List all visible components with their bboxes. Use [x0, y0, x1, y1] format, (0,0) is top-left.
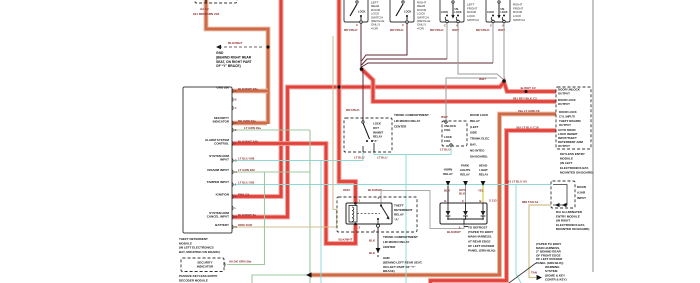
wire BLK/WHT 28a row A [232, 89, 268, 94]
theft deterrent module box [183, 87, 232, 233]
wire REY/BLK left rear switch [361, 23, 363, 119]
svg-text:REY/BLK: REY/BLK [344, 28, 358, 32]
wire LT BLU branch down middle [405, 155, 407, 283]
svg-text:SECURITYINDICATOR: SECURITYINDICATOR [197, 261, 214, 269]
svg-text:BLK: BLK [369, 251, 376, 255]
door lock relay dashed box [442, 121, 467, 146]
wire GRN to bottom module [252, 275, 309, 283]
svg-text:BATTERY: BATTERY [215, 223, 229, 227]
svg-text:F: F [235, 141, 237, 145]
svg-text:881 REY/BLK C3: 881 REY/BLK C3 [513, 97, 537, 101]
svg-text:HORNRELAY: HORNRELAY [443, 168, 453, 177]
wire LT GRN 29a [232, 129, 310, 131]
wire BRN/ORN 294 salmon from top connector [206, 0, 268, 124]
wire LT BLU 698 row to lockout relay [232, 152, 363, 161]
svg-text:SECURITYINDICATOR: SECURITYINDICATOR [213, 116, 230, 124]
wire ORN 1040 battery row [232, 36, 337, 227]
keyless entry module dashed box [556, 87, 591, 149]
wire PNK C8 ignition feed [232, 0, 281, 197]
svg-text:LOCK: LOCK [487, 11, 494, 14]
to defrost arrow [464, 226, 468, 228]
wire REY/BLK left front switch horizontal [362, 59, 448, 65]
svg-text:(TAPED TO BODYMAIN HARNESS,2″: (TAPED TO BODYMAIN HARNESS,2″ BEHIND REA… [536, 242, 563, 265]
wire BLK/WHT 246 alarm system control to relay pin 2 [232, 144, 356, 244]
svg-text:IGNITION: IGNITION [216, 193, 229, 197]
svg-text:BLK/WHT: BLK/WHT [447, 230, 461, 234]
left front door lock switch [440, 0, 464, 22]
svg-text:TAMPER INPUT: TAMPER INPUT [207, 180, 229, 184]
connector C2 dashed box (top) [195, 0, 237, 3]
wire LT GRN vertical to splice [309, 130, 311, 283]
svg-text:B: B [235, 97, 237, 101]
svg-text:LOCK: LOCK [358, 10, 365, 14]
svg-text:LT GRN 29a: LT GRN 29a [244, 126, 261, 130]
svg-text:292 LT BLU C18: 292 LT BLU C18 [516, 126, 539, 130]
svg-text:LOCK: LOCK [441, 11, 448, 14]
svg-text:BLK/WHT: BLK/WHT [339, 238, 353, 242]
svg-text:A: A [456, 24, 458, 28]
svg-text:BLK: BLK [369, 239, 376, 243]
theft deterrent relay box [346, 203, 392, 224]
wire DK GRN 29a security indicator link [227, 172, 265, 265]
diodes [447, 203, 449, 211]
svg-text:ORN 1040: ORN 1040 [238, 223, 253, 227]
lock out inhibit relay dashed box [344, 118, 392, 152]
svg-text:YEL: YEL [478, 189, 484, 193]
wire WHT right front switch [503, 23, 505, 80]
svg-text:ORN: ORN [343, 188, 350, 192]
svg-text:LT BLU 698: LT BLU 698 [238, 156, 255, 160]
svg-text:S 313: S 313 [489, 199, 497, 203]
svg-text:BLK: BLK [444, 189, 451, 193]
wire LT GRN 262 row [232, 171, 310, 173]
svg-text:SYSTEM ARMCANCEL INPUT: SYSTEM ARMCANCEL INPUT [207, 211, 230, 219]
svg-text:WHT: WHT [498, 28, 505, 32]
ground behind left rear seat [376, 248, 381, 257]
relay switch [380, 204, 382, 206]
svg-text:C: C [444, 24, 446, 28]
svg-text:REY/BLK: REY/BLK [346, 108, 360, 112]
svg-text:LT BLU: LT BLU [440, 148, 450, 152]
illuminated entry module dashed box [551, 181, 575, 208]
svg-text:C: C [490, 24, 492, 28]
svg-text:888 TAN A2: 888 TAN A2 [522, 200, 539, 204]
svg-text:C: C [462, 199, 464, 203]
svg-text:LT GRN 262: LT GRN 262 [238, 168, 255, 172]
svg-text:WHT: WHT [452, 28, 459, 32]
svg-text:C: C [356, 23, 358, 27]
wire LT BLU 292 row to door ajar input [232, 184, 551, 186]
wire REY/BLK to door lock output [362, 69, 557, 102]
wire DK GRN 29a row D [232, 121, 267, 126]
theft deterrent module pins and labels [232, 89, 233, 93]
svg-text:DK GRN 29a: DK GRN 29a [238, 119, 256, 123]
wire YEL from headlight relay [482, 186, 484, 203]
wire BLK from horn relay [447, 186, 449, 203]
wire red feed to theft deterrent relay pin 1 [339, 0, 356, 203]
svg-text:GRD 280: GRD 280 [216, 86, 229, 90]
wire REY/BLK left front switch [446, 23, 448, 59]
svg-text:TAN: TAN [531, 271, 537, 275]
svg-text:29a LT GRN C8: 29a LT GRN C8 [518, 109, 540, 113]
wire LT BLU branch down right [516, 185, 521, 283]
right front door lock switch [486, 0, 510, 22]
door ajar input internal wiring [553, 185, 567, 206]
svg-text:BLK/WHT: BLK/WHT [228, 41, 242, 45]
svg-text:WHT: WHT [479, 77, 486, 81]
svg-text:811 BRN/ORN 294: 811 BRN/ORN 294 [193, 12, 220, 16]
wire BLK/WHT 8a to door unlock output [232, 82, 556, 217]
warning system arrow [537, 275, 543, 280]
svg-text:PARKLIGHTSRELAY: PARKLIGHTSRELAY [460, 164, 471, 177]
svg-text:HEAD-LIGHTRELAY: HEAD-LIGHTRELAY [479, 164, 489, 177]
wire TAN 888 to warning system [529, 205, 551, 278]
wire BLK relay pin 5 to ground [377, 228, 379, 254]
svg-text:4a WHT C2: 4a WHT C2 [520, 86, 536, 90]
wire LT BLU lockout relay to door lock relay [374, 146, 451, 155]
right rear door lock switch [390, 0, 414, 22]
left rear door lock switch [344, 0, 368, 22]
svg-text:L: L [235, 206, 237, 210]
wire right boundary [592, 0, 594, 272]
wire REY/BLK right front switch [492, 23, 494, 63]
svg-text:C: C [402, 23, 404, 27]
wire LT BLU branch down left [320, 161, 322, 283]
relay coil [349, 206, 357, 223]
splice S403 arrow [306, 272, 312, 277]
svg-text:LT BLU: LT BLU [377, 156, 387, 160]
svg-text:A: A [502, 24, 504, 28]
svg-text:E: E [235, 128, 237, 132]
svg-text:REY/BLK: REY/BLK [390, 28, 404, 32]
svg-text:PNK C8: PNK C8 [238, 192, 249, 196]
svg-text:BLK/WHT: BLK/WHT [368, 188, 382, 192]
svg-text:DISARM INPUT: DISARM INPUT [207, 168, 229, 172]
svg-text:A2 C2: A2 C2 [200, 7, 209, 11]
pointer line [509, 263, 536, 283]
wire LT GRN C8 door lock cyl input [311, 114, 556, 275]
svg-text:BLK/WHT 28a: BLK/WHT 28a [238, 87, 258, 91]
svg-text:H: H [235, 170, 237, 174]
wire REY/BLK right front switch horizontal [362, 63, 494, 67]
ground behind right rear seat [216, 45, 264, 49]
wire WHT left front switch [458, 23, 504, 80]
svg-text:WHT: WHT [441, 115, 448, 119]
wire LT BLU C18 auto door lock inhibit [431, 131, 557, 283]
svg-text:N: N [235, 225, 237, 229]
svg-text:B: B [479, 199, 481, 203]
svg-text:LOCK: LOCK [404, 10, 411, 14]
svg-text:B: B [444, 199, 446, 203]
svg-text:253 LT BLU A3: 253 LT BLU A3 [506, 180, 527, 184]
wire GRY/BLK from park lights relay [465, 186, 467, 203]
diode assembly box [440, 203, 487, 224]
svg-text:LT BLU: LT BLU [354, 156, 364, 160]
svg-text:D: D [235, 121, 237, 125]
svg-text:REY/BLK: REY/BLK [430, 28, 444, 32]
trunk compartment relay center dashed box [337, 197, 417, 232]
wire BLK/WHT diode box to relay [381, 191, 464, 229]
svg-text:REY/BLK: REY/BLK [476, 28, 490, 32]
relay feed arrows [446, 181, 451, 186]
svg-text:BLK/WHT 246: BLK/WHT 246 [238, 139, 258, 143]
wire WHT door lock relay [446, 78, 497, 121]
wire REY/BLK right rear switch [362, 23, 408, 61]
svg-text:LT BLU 292: LT BLU 292 [238, 180, 255, 184]
security indicator dashed box [181, 258, 224, 272]
svg-text:A6 DK GRN 29a: A6 DK GRN 29a [229, 259, 252, 263]
svg-text:BLK/WHT 8a: BLK/WHT 8a [238, 213, 256, 217]
